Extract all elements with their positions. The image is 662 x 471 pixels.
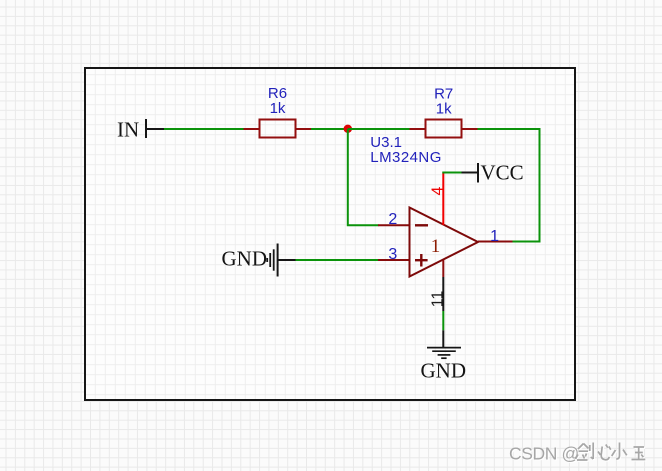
schematic sheet — [84, 67, 576, 401]
wire R6 to junction — [311, 128, 348, 130]
wire pin 11 to ground — [442, 311, 444, 330]
xiao — [612, 443, 627, 460]
svg-text:3: 3 — [388, 246, 397, 263]
watermark chinese glyphs — [577, 444, 647, 462]
svg-text:2: 2 — [388, 211, 397, 228]
svg-text:1k: 1k — [436, 101, 452, 118]
svg-text:1: 1 — [490, 228, 499, 245]
wire GND to pin 3 — [296, 259, 379, 261]
yu — [632, 447, 646, 460]
svg-text:GND: GND — [222, 247, 268, 271]
junction node — [344, 125, 352, 133]
svg-text:LM324NG: LM324NG — [370, 149, 442, 166]
power port GND left — [267, 244, 295, 277]
svg-text:1k: 1k — [270, 100, 286, 117]
wire feedback junction down to pin 2 — [348, 129, 379, 225]
op-amp U3.1 triangle body — [410, 208, 479, 277]
port IN — [146, 119, 165, 138]
pin 4 power pin line — [442, 173, 444, 226]
wire IN to R6 — [164, 128, 244, 130]
ground symbol GND — [427, 348, 461, 359]
op-amp non-inverting plus mark — [415, 254, 428, 267]
svg-text:CSDN @: CSDN @ — [509, 444, 579, 464]
resistor R6 — [244, 120, 312, 138]
op-amp inverting minus mark — [415, 224, 428, 226]
op-amp U3.1 pin 2 stub — [378, 224, 410, 226]
resistor R7 — [410, 120, 478, 138]
op-amp pin 1 output stub — [478, 241, 513, 243]
ground stub — [442, 330, 444, 347]
svg-text:VCC: VCC — [481, 161, 524, 185]
svg-text:11: 11 — [430, 291, 447, 308]
port VCC — [462, 163, 479, 183]
svg-text:GND: GND — [421, 359, 467, 383]
wire R7 to output (right loop) — [478, 129, 540, 242]
op-amp U3.1 pin 3 stub — [378, 259, 410, 261]
wire junction to R7 — [348, 128, 410, 130]
svg-text:IN: IN — [117, 118, 139, 142]
jian — [576, 443, 594, 461]
svg-text:1: 1 — [431, 236, 441, 257]
xin — [598, 445, 611, 460]
pin 11 power pin line — [442, 260, 444, 277]
pin 11 black segment — [442, 277, 444, 311]
wire pin 4 to VCC — [442, 172, 462, 174]
svg-text:4: 4 — [430, 186, 447, 195]
